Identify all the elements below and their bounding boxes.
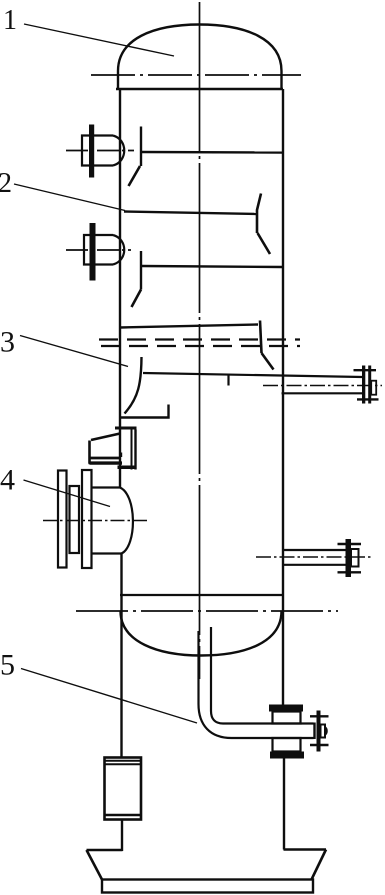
tray unit 3 — [132, 251, 283, 307]
label 2 — [0, 168, 12, 199]
bottom tangent line — [76, 610, 338, 612]
tray unit 2 (right side) — [124, 194, 270, 255]
leader line 1 — [24, 24, 174, 56]
leader line 2 — [14, 184, 125, 211]
manhole centerline — [43, 520, 150, 522]
nozzle b neck — [84, 235, 124, 265]
label 1 — [3, 5, 17, 36]
label 5 — [0, 649, 15, 682]
svg-text:2: 2 — [0, 168, 12, 199]
tray unit 4 (curved support) — [125, 357, 142, 414]
nozzle b flange — [90, 223, 96, 281]
nozzle a (upper left) centerline — [66, 150, 134, 152]
top head (dome) — [118, 25, 282, 90]
leader line 5 — [21, 669, 197, 724]
top tangent line — [91, 74, 301, 76]
right nozzle 2 flange — [338, 539, 362, 577]
pipe flange pair on skirt — [269, 705, 304, 759]
davit plate — [118, 430, 136, 470]
label 4 — [0, 464, 15, 497]
tray deck dashed row 2 — [101, 345, 300, 347]
right nozzle 1 pipe bottom — [282, 392, 363, 394]
shell left wall — [120, 89, 122, 851]
base ring plate — [102, 880, 313, 893]
weir L-piece — [120, 405, 169, 418]
manhole body flange — [82, 470, 92, 568]
manhole cover flange — [58, 471, 67, 568]
bottom outlet pipe — [199, 627, 315, 739]
svg-text:5: 5 — [0, 649, 15, 682]
skirt base right flare — [284, 850, 327, 880]
manhole gasket — [70, 486, 80, 553]
bottom head (dished) — [121, 611, 282, 656]
top head weld seam — [116, 88, 283, 90]
tray deck dashed row 1 — [99, 338, 300, 340]
label 3 — [0, 326, 15, 359]
right nozzle 2 centerline — [256, 556, 372, 558]
shell right wall — [283, 89, 284, 850]
davit arm — [89, 434, 123, 464]
leader line 4 — [24, 480, 111, 507]
svg-text:1: 1 — [3, 5, 17, 36]
svg-text:4: 4 — [0, 464, 15, 497]
davit top bar — [115, 427, 137, 430]
tray deck top line — [120, 325, 258, 328]
leader line 3 — [20, 336, 128, 367]
nozzle b (lower left) centerline — [66, 249, 131, 251]
manhole neck — [92, 488, 133, 554]
right nozzle 1 centerline — [263, 385, 382, 387]
svg-text:3: 3 — [0, 326, 15, 359]
vessel vertical centerline — [199, 2, 201, 679]
tray line merging into right nozzle top — [143, 373, 362, 386]
tray deck right downcomer — [260, 321, 274, 370]
skirt access opening — [105, 758, 142, 820]
pipe end flange — [310, 711, 329, 752]
bottom head weld seam — [120, 594, 283, 596]
nozzle a neck — [82, 136, 124, 166]
skirt base left flare — [87, 850, 123, 880]
tray unit 1 (vertical, horizontal, diagonal) — [129, 127, 283, 187]
right nozzle 1 flange — [354, 366, 379, 404]
nozzle a flange — [89, 125, 94, 178]
right nozzle 2 pipe — [284, 550, 346, 565]
